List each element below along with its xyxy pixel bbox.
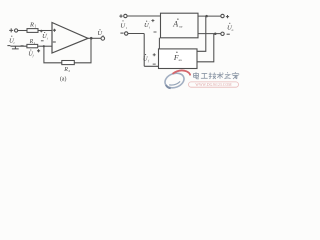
svg-text:i: i: [14, 41, 15, 45]
svg-text:R: R: [29, 21, 34, 28]
svg-text:o: o: [232, 28, 234, 32]
svg-text:A: A: [172, 20, 178, 29]
svg-text:i: i: [126, 26, 127, 30]
svg-text:2: 2: [68, 69, 70, 73]
svg-text:(a): (a): [60, 75, 67, 82]
svg-text:1: 1: [34, 24, 36, 28]
svg-text:': ': [47, 32, 48, 36]
svg-text:i: i: [149, 26, 150, 30]
svg-text:f: f: [148, 59, 150, 63]
svg-text:WWW.DGJS123.COM: WWW.DGJS123.COM: [195, 83, 232, 87]
svg-text:i: i: [47, 36, 48, 40]
svg-text:uu: uu: [179, 58, 183, 62]
svg-text:': ': [149, 21, 150, 25]
svg-text:uu: uu: [179, 25, 183, 29]
svg-text:f: f: [33, 54, 35, 58]
